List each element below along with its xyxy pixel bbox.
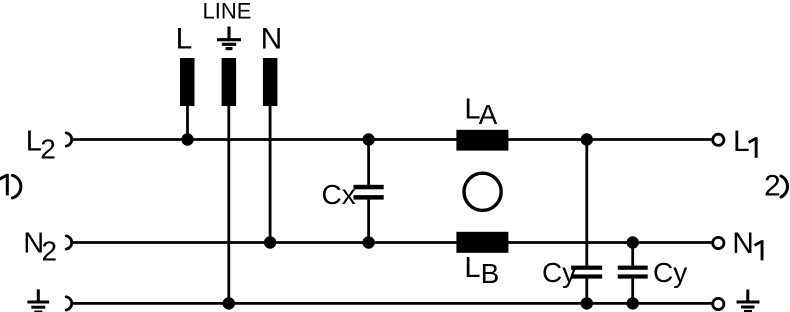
svg-text:N: N xyxy=(261,22,283,55)
svg-text:LINE: LINE xyxy=(203,0,252,24)
svg-text:Cy: Cy xyxy=(542,257,576,288)
node (Cx top junction on L rail) xyxy=(362,133,374,145)
pin L (terminal blade) xyxy=(180,58,195,106)
wire (earth rail) xyxy=(73,302,711,305)
node (Cy left top junction on L rail) xyxy=(581,133,593,145)
svg-text:2: 2 xyxy=(764,170,781,203)
node (Cy left bottom junction on earth rail) xyxy=(581,297,593,309)
terminal (socket arc, L2) xyxy=(66,133,72,146)
node (E pin junction on earth rail) xyxy=(223,297,235,309)
terminal (open circle, L1) xyxy=(713,134,724,145)
node (Cy right bottom junction on earth rail) xyxy=(627,297,639,309)
svg-text:A: A xyxy=(479,99,498,130)
svg-text:L: L xyxy=(176,22,193,55)
svg-text:2: 2 xyxy=(40,133,56,164)
node (Cx bottom junction on N rail) xyxy=(362,236,374,248)
svg-text:L: L xyxy=(733,125,750,158)
node (L pin junction on L rail) xyxy=(181,133,193,145)
pin N (terminal blade) xyxy=(263,58,278,106)
core (common-mode choke circle) xyxy=(464,173,501,210)
svg-text:Cy: Cy xyxy=(653,257,687,288)
node (Cy right top junction on N rail) xyxy=(627,236,639,248)
svg-text:2: 2 xyxy=(42,235,58,266)
pin E (terminal blade) xyxy=(222,58,237,106)
svg-text:B: B xyxy=(481,258,500,289)
capacitor Cy (right, N to earth) xyxy=(618,243,648,304)
node (N pin junction on N rail) xyxy=(264,236,276,248)
ground (small, LINE input earth) xyxy=(217,27,241,49)
capacitor Cy (left, L to earth) xyxy=(571,140,602,304)
wire (N rail, N2 to N1) xyxy=(73,241,711,244)
ground (right earth output symbol) xyxy=(737,290,760,312)
label 1) xyxy=(6,174,9,196)
wire (L pin down to L rail) xyxy=(186,106,189,140)
wire (L rail, L2 to L1) xyxy=(73,138,711,141)
svg-text:N: N xyxy=(732,227,754,260)
svg-text:L: L xyxy=(464,252,480,284)
svg-text:Cx: Cx xyxy=(322,179,356,210)
wire (N pin down to N rail) xyxy=(269,106,272,243)
wire (E pin down to earth rail) xyxy=(227,106,230,303)
inductor LA (choke winding, L side) xyxy=(456,130,508,151)
capacitor Cx (X-cap between L and N) xyxy=(354,140,384,243)
terminal (open circle, N1) xyxy=(713,237,724,248)
ground (left earth input symbol) xyxy=(27,289,49,312)
inductor LB (choke winding, N side) xyxy=(456,232,508,253)
terminal (socket arc, N2) xyxy=(66,236,72,249)
terminal (open circle, earth out) xyxy=(713,298,724,309)
terminal (socket arc, earth in) xyxy=(66,297,72,310)
